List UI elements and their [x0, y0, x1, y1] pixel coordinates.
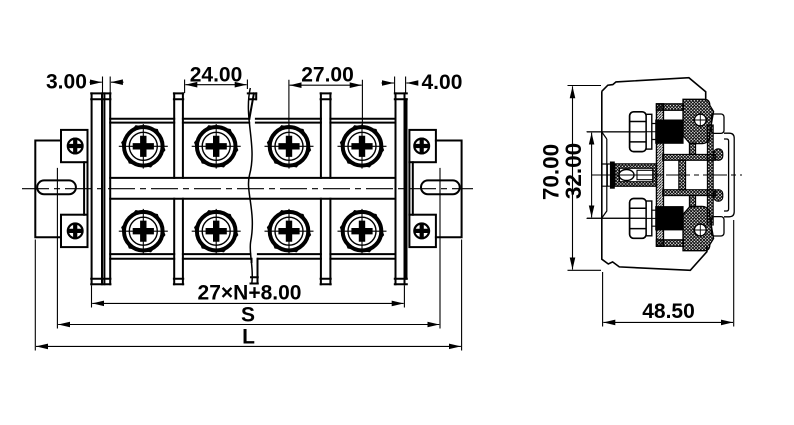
svg-text:S: S — [241, 304, 255, 327]
svg-text:70.00: 70.00 — [539, 144, 564, 200]
svg-text:4.00: 4.00 — [422, 71, 463, 94]
svg-text:L: L — [242, 326, 255, 349]
svg-text:32.00: 32.00 — [561, 143, 586, 199]
svg-text:24.00: 24.00 — [190, 64, 243, 87]
svg-text:3.00: 3.00 — [46, 71, 87, 94]
svg-text:27.00: 27.00 — [301, 64, 354, 87]
svg-text:48.50: 48.50 — [642, 300, 695, 323]
svg-text:27×N+8.00: 27×N+8.00 — [198, 282, 302, 305]
